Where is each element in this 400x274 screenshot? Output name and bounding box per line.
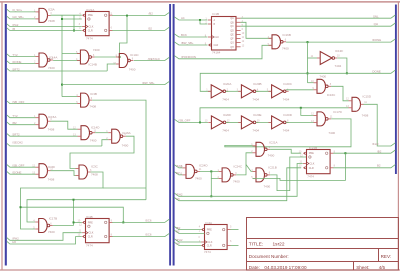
D flip-flop IC4A (7474) [198, 221, 232, 254]
svg-text:/B2: /B2 [12, 121, 17, 125]
svg-text:7400: 7400 [264, 185, 271, 189]
junction x73.5 on y200 [73, 199, 75, 201]
junction IC24D out [210, 170, 212, 172]
wire IC21A out to IC22B PRE [270, 149, 301, 153]
NAND gate IC14A [34, 53, 57, 70]
label QH [374, 22, 378, 26]
label /SECH2 [12, 140, 23, 144]
label B2 right bus [377, 164, 381, 168]
svg-text:7400: 7400 [48, 230, 55, 234]
inverter IC20E [238, 113, 261, 133]
svg-text:PRE: PRE [88, 221, 93, 224]
wire vertical x74 [73, 15, 75, 30]
NAND gate IC21A [251, 141, 277, 158]
bus left page left edge [5, 4, 7, 266]
svg-text:SRT2: SRT2 [12, 67, 20, 71]
wire net /PH2 to IC4B CLK [7, 233, 82, 241]
svg-text:7474: 7474 [86, 244, 93, 248]
svg-text:IC15D: IC15D [363, 95, 372, 99]
wire cross to IC21B pin 1 [246, 165, 253, 172]
wire net B2 to IC24D pin 2 [174, 172, 182, 175]
svg-text:7400: 7400 [48, 66, 55, 70]
label /SC6 right [176, 164, 183, 168]
label /B [12, 27, 15, 31]
label /B2 right bus [377, 149, 382, 153]
wire IC4B Qbar to bus [112, 233, 169, 236]
junction Q IC22B [344, 152, 346, 154]
inverter IC13F (7404) [311, 49, 344, 68]
label B2 right [176, 171, 180, 175]
wire y207 line [21, 207, 124, 222]
NAND gate IC14B [76, 48, 100, 66]
wire branch down to /PH2 [210, 178, 212, 196]
svg-text:7400: 7400 [90, 139, 97, 143]
junction x62 on /RW_SB+ [61, 84, 63, 86]
title block frame [247, 218, 399, 271]
wire to IC4A CLK [174, 239, 201, 242]
svg-text:QH: QH [230, 47, 234, 49]
wire IC3B out [92, 100, 146, 200]
svg-text:TY2: TY2 [12, 114, 18, 118]
wire jog /SECH2 to IC16A pin 2 [102, 140, 108, 146]
label IC4A clr net [176, 242, 180, 246]
wire net /SB_OFF to IC3B pin 2 [7, 101, 77, 104]
svg-text:IC3B: IC3B [90, 92, 97, 96]
svg-text:7408: 7408 [89, 105, 96, 109]
junction x62 D branch [61, 18, 63, 20]
svg-text:IC13F: IC13F [335, 49, 343, 53]
junction on Q wire of IC4B [122, 221, 124, 223]
bus right page right edge [395, 5, 397, 175]
svg-text:IC20C: IC20C [283, 82, 292, 86]
svg-text:B2: B2 [377, 164, 381, 168]
wire x73.5 to IC4B PRE [74, 221, 82, 223]
svg-text:7404: 7404 [335, 64, 342, 68]
wire net /PA2 to IC22A CLK [7, 24, 82, 27]
label H6 [12, 240, 16, 244]
junction y207 left [20, 206, 22, 208]
svg-text:/SECH2: /SECH2 [12, 140, 23, 144]
svg-text:7408: 7408 [48, 127, 55, 131]
label /DONE [12, 60, 21, 64]
wire net /DONE to IC3D pin 2 [7, 172, 36, 175]
svg-text:IC21A: IC21A [269, 141, 277, 145]
svg-text:7400: 7400 [319, 74, 326, 78]
svg-text:7474: 7474 [86, 36, 93, 40]
svg-text:IC20E: IC20E [253, 113, 261, 117]
svg-text:7400: 7400 [233, 180, 240, 184]
svg-text:/SC6: /SC6 [176, 164, 183, 168]
svg-text:74164: 74164 [212, 51, 221, 55]
AND gate IC15A [34, 114, 56, 131]
frame bottom border [0, 269, 400, 271]
label /DONE second [12, 171, 21, 175]
svg-text:/RW_SB+: /RW_SB+ [142, 81, 155, 85]
wire net /B to IC22A CLR [7, 28, 82, 31]
svg-text:/SC6: /SC6 [145, 233, 152, 237]
svg-text:PRE: PRE [88, 14, 93, 17]
title block Document row [249, 254, 391, 259]
svg-text:SNL: SNL [373, 14, 379, 18]
wire x307 to IC16C pin 1 [308, 82, 314, 84]
svg-text:7404: 7404 [252, 97, 259, 101]
wire IC20C out to IC16C pin 2 [286, 89, 314, 91]
svg-text:Date:: Date: [249, 265, 260, 270]
svg-text:REV:: REV: [381, 254, 392, 259]
svg-text:TY2: TY2 [12, 53, 18, 57]
svg-text:7404: 7404 [222, 97, 229, 101]
svg-text:/PH2: /PH2 [176, 193, 183, 197]
wire x62 to IC22A D pin [62, 18, 82, 20]
bus right page left edge [173, 4, 175, 266]
svg-text:QG: QG [230, 43, 234, 45]
IC IC1B shift register (74164) [205, 12, 245, 55]
wire net /KLD from IC15D out [364, 104, 396, 146]
wire net /POFFDON to IC16B pin 5 [174, 45, 272, 59]
wire Q feedback to IC21B pin 2 [253, 153, 346, 180]
wire to IC4A CLR [174, 242, 201, 245]
svg-text:Sheet:: Sheet: [356, 265, 369, 270]
wire rail drop to IC17D pin 1 [301, 108, 314, 116]
inverter IC20C [267, 82, 293, 102]
svg-text:IC3C: IC3C [91, 165, 99, 169]
label /SC6 bar [145, 233, 152, 237]
svg-text:7404: 7404 [283, 129, 290, 133]
svg-text:A4: A4 [181, 16, 185, 20]
inverter IC20B [237, 82, 262, 102]
wire IC16A out loop to IC3C pin 1 [70, 136, 134, 168]
label /A0_SB+ [12, 15, 24, 19]
label /POFFDON [181, 55, 196, 59]
wire net /DONE to IC14A pin 2 [7, 61, 36, 64]
NAND gate IC16C [311, 74, 336, 96]
label IC4A pre net [176, 226, 181, 230]
wire x62 corner to IC3B pin 1 [62, 96, 77, 98]
svg-text:QA: QA [230, 17, 234, 20]
svg-text:7404: 7404 [283, 97, 290, 101]
title block TITLE row [249, 241, 285, 247]
svg-text:IC20F: IC20F [223, 113, 231, 117]
wire IC24D out to IC24C pin 1 [200, 170, 219, 172]
junction x74 on /B wire [73, 30, 75, 32]
wire IC22B Qbar to bus [333, 165, 395, 168]
frame left border [1, 2, 3, 270]
wire IC22A Q to bus label /B2 [112, 12, 169, 15]
D flip-flop IC22B (7474) [299, 146, 336, 179]
svg-text:7400: 7400 [282, 46, 289, 50]
svg-text:IC20A: IC20A [223, 82, 231, 86]
wire IC4A Qbar stub [231, 244, 239, 246]
wire IC3D out to IC3C pin 2 [51, 171, 76, 176]
svg-text:CLK: CLK [310, 163, 315, 166]
AND gate IC5A [34, 7, 55, 23]
wire net A4 to IC1B pin A [174, 17, 207, 20]
label B2 [149, 26, 153, 30]
svg-text:CLR: CLR [207, 244, 212, 247]
svg-text:/DONE: /DONE [12, 171, 21, 175]
NAND gate IC24D [179, 164, 208, 181]
label /B2 [149, 12, 154, 16]
wire to IC4A D [174, 230, 204, 233]
label IC4A clk net [176, 238, 183, 242]
junction IC13F DONE [346, 72, 348, 74]
svg-text:7400: 7400 [129, 67, 136, 71]
label /B2 second [12, 121, 17, 125]
label /KLD [372, 142, 378, 146]
svg-text:PRE: PRE [309, 152, 314, 155]
NAND gate IC17B [33, 216, 57, 234]
wire Q feedback to IC14C pin 1 [120, 16, 128, 57]
wire net SNL from IC1B QA [241, 15, 396, 18]
svg-text:7474: 7474 [307, 175, 314, 179]
label A4 [181, 16, 185, 20]
wire IC20D out to IC17D pin 2 [286, 121, 314, 123]
wire net /B2 to IC15A pin 2 [7, 122, 36, 125]
wire branch to IC24C pin 2 and PH2 [211, 171, 218, 178]
svg-text:/SB_OFF: /SB_OFF [12, 100, 24, 104]
svg-text:IC20D: IC20D [283, 113, 292, 117]
svg-text:TITLE:: TITLE: [249, 241, 263, 247]
wire net /SB_OFF right page [174, 119, 208, 122]
svg-text:IC1B: IC1B [212, 12, 219, 16]
svg-text:IC20B: IC20B [253, 82, 261, 86]
svg-text:7400: 7400 [328, 131, 335, 135]
svg-text:/A0_SB+: /A0_SB+ [12, 15, 24, 19]
wire IC3C out loop A [21, 172, 104, 229]
wire net /SC6 to IC24D pin 1 [174, 165, 182, 168]
wire net /RW_SB+ [62, 81, 169, 84]
svg-text:/BW_SB+: /BW_SB+ [181, 41, 194, 45]
svg-text:7400: 7400 [268, 154, 275, 158]
wire branch to IC1B pin B [200, 20, 208, 24]
wire IC22A Qbar to bus [112, 27, 169, 30]
svg-text:CLK: CLK [89, 232, 94, 235]
wire IC17B out [53, 225, 74, 227]
svg-text:QB: QB [230, 22, 234, 24]
svg-text:B2: B2 [176, 230, 180, 234]
label /BW_SB+ [181, 41, 194, 45]
svg-text:/DONE: /DONE [12, 60, 21, 64]
junction A4 [199, 19, 201, 21]
wire jog SRT2 to IC14C pin 2 [107, 64, 116, 71]
wire loop L2 from IC3B [27, 200, 146, 222]
wire net BCK to IC1B CLK [174, 34, 207, 37]
junction IC16B out [307, 41, 309, 43]
NAND gate IC16A [106, 129, 130, 147]
svg-text:IC5A: IC5A [48, 7, 55, 11]
svg-text:IC16B: IC16B [283, 33, 291, 37]
wire vertical x307 [307, 42, 309, 83]
wire IC1B QB to IC16B pin 4 [241, 22, 272, 38]
svg-text:CLK: CLK [214, 36, 219, 39]
svg-text:1sr22: 1sr22 [273, 241, 285, 247]
NAND gate IC16B [268, 33, 291, 50]
wire IC20B out to IC20C [256, 90, 272, 92]
svg-text:B2: B2 [176, 171, 180, 175]
svg-text:CLK: CLK [89, 26, 94, 29]
svg-text:/SB_OFF: /SB_OFF [178, 119, 190, 123]
label SNL [373, 14, 379, 18]
AND gate IC3C [76, 165, 99, 179]
wire y188 segment to x146 [103, 187, 146, 189]
wire net TY2 to IC15A pin 1 [7, 115, 36, 118]
label /SC6 [145, 218, 152, 222]
svg-text:IC4B: IC4B [86, 215, 93, 219]
svg-text:Document Number:: Document Number: [249, 254, 289, 259]
svg-text:7474: 7474 [204, 250, 211, 254]
wire IC14A out to IC14B pin 2 [53, 60, 80, 62]
label /PH2 [12, 237, 19, 241]
svg-text:IC21B: IC21B [268, 166, 276, 170]
svg-text:7404: 7404 [252, 129, 259, 133]
svg-text:PRE: PRE [207, 229, 212, 232]
wire IC24C out cross to IC21A pin 2 [236, 153, 252, 175]
label /SB_OFF right [178, 119, 190, 123]
wire net H6 to IC4B CLR [7, 237, 82, 244]
label /SB_OFF lower [12, 100, 24, 104]
wire net /SECH2 [7, 143, 102, 146]
wire net DONE rail [200, 70, 395, 91]
svg-text:7400: 7400 [122, 144, 129, 148]
wire net /SB_OFF to IC3D pin 1 [7, 165, 36, 168]
label TY2 second [12, 114, 18, 118]
svg-text:7408: 7408 [48, 19, 55, 23]
svg-text:/B2: /B2 [377, 149, 382, 153]
wire to IC4A PRE [174, 226, 201, 229]
svg-text:CLR: CLR [88, 29, 93, 32]
wire net /DONE from IC16B out [286, 39, 395, 42]
AND gate IC15D [346, 95, 372, 118]
label IC4A d net [176, 230, 180, 234]
wire row2 rail to IC15D pin 2 [200, 108, 349, 123]
svg-text:/0_SO+: /0_SO+ [12, 8, 22, 12]
wire net TY2 to IC14A pin 1 [7, 54, 36, 57]
wire vertical x73.5 PRE feed [73, 200, 75, 226]
wire net QH from IC1B QC [241, 23, 396, 26]
svg-text:DONE: DONE [372, 69, 380, 73]
svg-text:B2: B2 [149, 26, 153, 30]
svg-text:CLR: CLR [309, 167, 314, 170]
label BCK [181, 33, 187, 37]
svg-text:QD: QD [230, 30, 234, 32]
junction /SB_OFF [199, 121, 201, 123]
frame right border [397, 2, 399, 270]
D flip-flop IC4B (7474) [78, 215, 113, 248]
wire IC21B out to IC22B D [270, 157, 306, 191]
wire IC4A Q stub [231, 229, 239, 231]
label /PA2 [12, 23, 18, 27]
svg-text:IC24D: IC24D [199, 164, 208, 168]
svg-text:H6: H6 [12, 240, 16, 244]
svg-text:/B2: /B2 [149, 12, 154, 16]
frame top border [0, 1, 400, 3]
label /PH2 right [176, 193, 183, 197]
wire IC16C out to IC15D pin 1 [331, 86, 348, 101]
svg-text:4/5: 4/5 [379, 265, 386, 270]
svg-text:IC17D: IC17D [333, 110, 342, 114]
D flip-flop IC22A (7474) [79, 8, 113, 41]
NAND gate IC24C [218, 165, 243, 184]
wire net /BW_SB+ to IC1B CLR [174, 42, 207, 45]
wire IC15A out to IC14D pin 1 [51, 121, 78, 129]
svg-text:IC16C: IC16C [327, 93, 336, 97]
wire IC20F out to IC20E [226, 121, 242, 123]
label /RW_SB+ [142, 81, 155, 85]
wire IC17D out to IC21A pin 1 [225, 119, 351, 147]
svg-text:IC22B: IC22B [309, 146, 317, 150]
wire net SRT2 to IC14D pin 2 [7, 134, 78, 137]
label H6 right [176, 197, 180, 201]
inverter IC20A [206, 82, 231, 102]
NAND gate IC14D [73, 125, 100, 142]
svg-text:/SB_OFF: /SB_OFF [12, 164, 24, 168]
junction on /PH2 [210, 195, 212, 197]
bus left page right edge [169, 4, 171, 266]
junction PRE tap [73, 221, 75, 223]
wire IC20E out to IC20D [256, 121, 272, 123]
svg-text:/SC6: /SC6 [145, 218, 152, 222]
wire IC4B Q to bus /SC6 [112, 219, 169, 222]
svg-text:IC14B: IC14B [89, 63, 97, 67]
svg-text:IC17B: IC17B [49, 216, 57, 220]
svg-text:/B: /B [12, 27, 15, 31]
svg-text:/KLD: /KLD [372, 142, 378, 146]
junction at IC14C pin 1 [119, 56, 121, 58]
junction row2 rail [300, 107, 302, 109]
label TY2 [12, 53, 18, 57]
svg-text:QE: QE [230, 35, 234, 37]
svg-text:H6: H6 [176, 197, 180, 201]
junction on Q wire [126, 15, 128, 17]
wire net SRT2 [7, 68, 107, 71]
wire x62 to IC14B pin 1 [62, 53, 80, 55]
svg-text:H6: H6 [176, 242, 180, 246]
AND gate IC3B [76, 92, 97, 109]
wire IC14B out to IC14C pin 1 [95, 56, 116, 58]
inverter IC20F [205, 113, 232, 133]
wire vertical x62 branch [61, 15, 63, 96]
wire IC13F out to DONE [337, 58, 347, 73]
wire net /PH2 right to IC22B CLK [174, 164, 302, 197]
title block Date row [249, 265, 386, 270]
label /DONE [372, 38, 381, 42]
svg-text:7404: 7404 [222, 129, 229, 133]
svg-text:/DONE: /DONE [372, 38, 381, 42]
svg-text:IC24C: IC24C [234, 165, 243, 169]
svg-text:BCK: BCK [181, 33, 187, 37]
label /0_SO+ [12, 8, 22, 12]
wire net /RET2LD from IC14C out [134, 57, 169, 60]
label SRT2 [12, 67, 20, 71]
label DONE [372, 69, 380, 73]
svg-text:7408: 7408 [362, 113, 369, 117]
svg-text:SRT2: SRT2 [12, 133, 20, 137]
wire IC14D out to IC16A pin 1 [95, 132, 108, 134]
svg-text:/RET2LD: /RET2LD [148, 57, 160, 61]
svg-text:QH: QH [374, 22, 378, 26]
label /SB_OFF third [12, 164, 24, 168]
svg-text:IC14A: IC14A [49, 55, 57, 59]
inverter IC20D [268, 113, 292, 133]
wire net H6 right to IC22B CLR [174, 168, 301, 201]
svg-text:/POFFDON: /POFFDON [181, 55, 196, 59]
wire IC5A output to IC22A PRE [51, 14, 82, 16]
svg-text:04.03.2019 17:09:00: 04.03.2019 17:09:00 [264, 265, 307, 270]
wire net /0_SO+ to IC5A pin 1 [7, 9, 36, 12]
label /RET2LD [148, 57, 160, 61]
wire IC20A out to IC20B [226, 90, 242, 92]
svg-text:IC22A: IC22A [86, 8, 94, 12]
